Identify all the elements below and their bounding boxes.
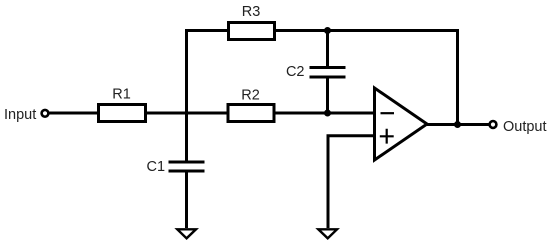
capacitor C2 (310, 68, 346, 78)
svg-text:Output: Output (503, 119, 547, 135)
wire node A vertical and to R3 (187, 31, 228, 161)
node dot output junction (454, 121, 461, 128)
op-amp U1 (375, 88, 428, 160)
node dot top of C2 (324, 27, 331, 34)
svg-text:R3: R3 (242, 4, 261, 20)
resistor R1 (99, 105, 146, 122)
wire input to R1 (50, 112, 98, 115)
wire C1 to ground (185, 173, 188, 229)
ground under op-amp (318, 229, 337, 238)
op-amp minus sign (381, 112, 395, 114)
resistor R2 (228, 105, 274, 122)
svg-text:R2: R2 (241, 88, 260, 104)
capacitor C1 (169, 162, 205, 171)
input terminal circle (42, 110, 49, 117)
svg-text:Input: Input (4, 107, 36, 123)
node dot B inverting input (324, 110, 331, 117)
resistor R3 (229, 23, 275, 40)
wire R3 to feedback corner down to output node (275, 31, 458, 125)
wire op-amp non-inverting input to ground (328, 136, 375, 228)
wire R2 to op-amp inverting input (276, 112, 375, 115)
wire C2 top stem (326, 31, 329, 67)
svg-text:C2: C2 (286, 64, 305, 80)
ground under C1 (177, 229, 196, 238)
op-amp plus sign (380, 129, 394, 144)
output terminal circle (490, 121, 497, 128)
svg-text:C1: C1 (147, 159, 166, 175)
wire R1 to R2 (147, 112, 227, 115)
wire C2 bottom stem (326, 79, 329, 114)
wire op-amp output (427, 123, 489, 126)
svg-text:R1: R1 (112, 87, 131, 103)
